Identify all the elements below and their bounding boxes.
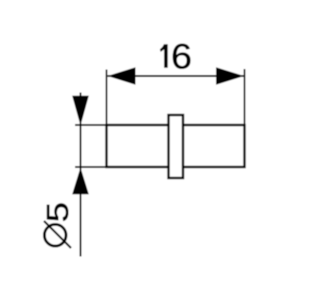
dimension line 16 [108, 75, 245, 77]
arrowhead left of 16 dim [108, 67, 136, 85]
arrowhead right of 16 dim [216, 67, 244, 85]
diameter symbol slash [44, 221, 71, 248]
extension line right (16 dim) [244, 69, 246, 125]
dimension text 16 : digit 1 [160, 44, 168, 67]
dimension text diameter symbol [44, 224, 66, 246]
svg-text:6: 6 [171, 37, 192, 76]
pin collar [169, 115, 184, 178]
extension line left (16 dim) [106, 70, 108, 126]
arrowhead down (diameter dim) [72, 96, 89, 126]
svg-text:5: 5 [40, 202, 75, 222]
dimension line vertical (diameter dim) [80, 93, 82, 257]
extension line bottom (diameter dim) [75, 166, 107, 168]
pin body [107, 125, 245, 167]
arrowhead up (diameter dim) [72, 168, 89, 195]
extension line top (diameter dim) [75, 124, 107, 126]
